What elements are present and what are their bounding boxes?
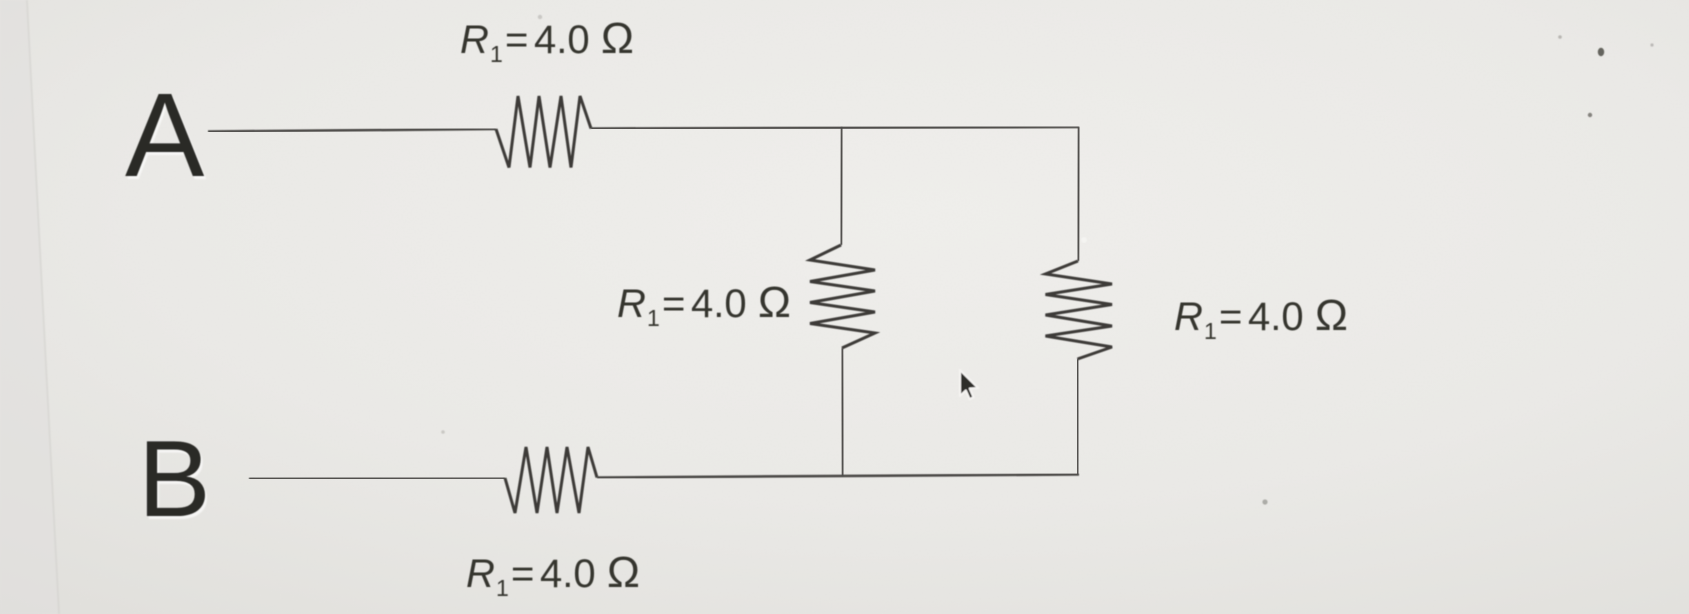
resistor R1 (bottom series, B branch) bbox=[505, 447, 597, 513]
resistor R1 (right vertical) bbox=[1046, 261, 1113, 359]
node B bbox=[138, 418, 213, 543]
value label R1 = 4.0 ohm (middle) bbox=[617, 278, 791, 331]
wire: top rail to R1 right (right vertical lead) bbox=[1078, 127, 1079, 261]
svg-text:R: R bbox=[460, 18, 489, 62]
svg-text:4.0: 4.0 bbox=[534, 18, 590, 62]
svg-text:4.0: 4.0 bbox=[1248, 295, 1304, 339]
svg-text:1: 1 bbox=[490, 41, 503, 67]
svg-text:=: = bbox=[505, 18, 528, 62]
svg-text:B: B bbox=[138, 418, 211, 540]
mouse cursor bbox=[960, 370, 978, 399]
node A bbox=[125, 69, 207, 205]
svg-text:=: = bbox=[662, 282, 685, 326]
wire: node A to R1 (top) bbox=[208, 129, 496, 132]
value label R1 = 4.0 ohm (right) bbox=[1174, 291, 1348, 344]
wire: bottom rail (R1 to right branch) bbox=[597, 475, 1079, 478]
value label R1 = 4.0 ohm (top) bbox=[460, 14, 634, 67]
svg-text:A: A bbox=[125, 69, 205, 202]
wire: top rail to R1 middle (left vertical lead) bbox=[841, 127, 842, 245]
wire: R1 middle to bottom rail bbox=[842, 348, 843, 476]
svg-text:4.0: 4.0 bbox=[540, 552, 596, 596]
wire: R1 right to bottom rail bbox=[1076, 359, 1079, 475]
dust specks bbox=[441, 15, 1653, 505]
svg-text:R: R bbox=[466, 552, 495, 596]
value label R1 = 4.0 ohm (bottom) bbox=[466, 548, 640, 601]
svg-text:4.0: 4.0 bbox=[691, 282, 747, 326]
svg-text:1: 1 bbox=[1204, 318, 1217, 344]
wire: node B to R1 (bottom) bbox=[249, 477, 505, 480]
svg-text:1: 1 bbox=[496, 575, 509, 601]
svg-text:1: 1 bbox=[647, 305, 660, 331]
svg-text:Ω: Ω bbox=[758, 278, 791, 327]
svg-text:=: = bbox=[1219, 295, 1242, 339]
wire: R1 top to right vertical branch bbox=[591, 127, 1079, 129]
resistor R1 (top series, A branch) bbox=[496, 96, 591, 168]
svg-text:=: = bbox=[511, 552, 534, 596]
svg-text:R: R bbox=[617, 282, 646, 326]
svg-text:Ω: Ω bbox=[607, 548, 640, 597]
resistor R1 (middle vertical) bbox=[810, 245, 875, 348]
svg-text:R: R bbox=[1174, 295, 1203, 339]
svg-text:Ω: Ω bbox=[1315, 291, 1348, 340]
left page-edge crease bbox=[0, 0, 59, 614]
svg-text:Ω: Ω bbox=[601, 14, 634, 63]
